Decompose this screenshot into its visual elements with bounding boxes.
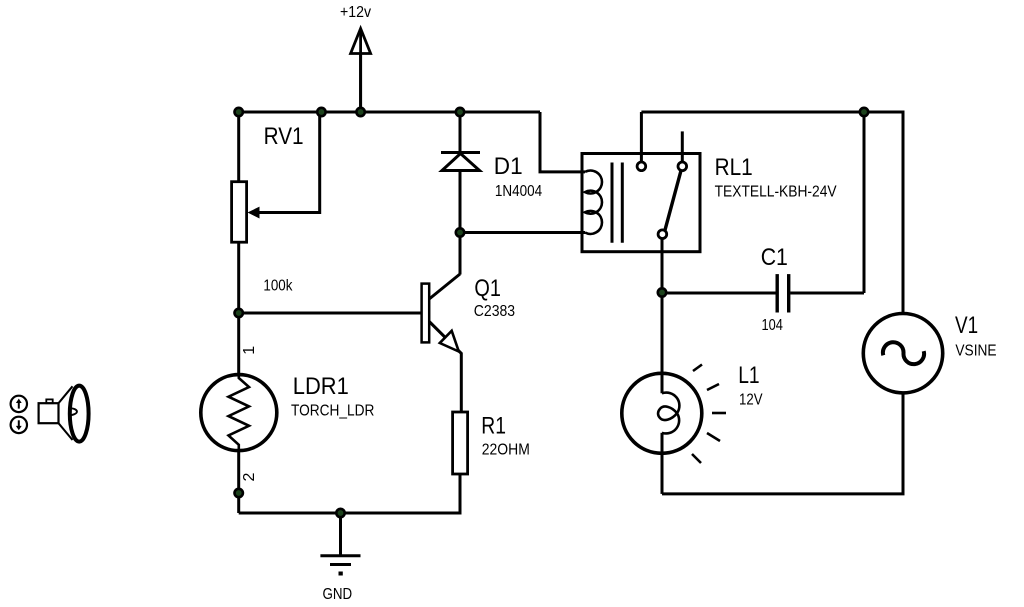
wire: relay NO stub (681, 131, 684, 162)
junction: D1 bottom node (456, 228, 464, 236)
svg-text:D1: D1 (494, 153, 523, 180)
resistor R1 body (453, 412, 468, 474)
relay RL1 (582, 154, 700, 252)
junction: C1 riser top (860, 108, 868, 116)
wire: drop to relay coil top (540, 112, 585, 172)
junction: lamp top node (658, 288, 666, 296)
svg-text:V1: V1 (955, 312, 978, 339)
wire: Q1 base wire (239, 312, 422, 315)
svg-text:R1: R1 (481, 413, 506, 440)
svg-text:RL1: RL1 (715, 154, 753, 181)
L1 filament (658, 393, 679, 434)
RL1 box (582, 154, 700, 252)
capacitor C1 (777, 274, 789, 312)
source V1 (863, 314, 942, 393)
speaker down button (11, 417, 27, 433)
svg-text:C2383: C2383 (474, 303, 515, 320)
wire: top rail left (239, 111, 540, 114)
wire: C1 left wire (662, 292, 776, 295)
potentiometer RV1 wiper arrowhead (248, 207, 260, 219)
RL1 switch blade (665, 171, 681, 230)
wire: RV1 wiper (256, 112, 320, 213)
wire: relay pin riser (640, 112, 643, 163)
svg-text:VSINE: VSINE (955, 342, 996, 359)
svg-text:L1: L1 (738, 362, 759, 389)
potentiometer RV1 body (232, 182, 247, 243)
wire: Q1 collector riser (459, 233, 462, 275)
wire: lamp bottom pin (661, 433, 664, 494)
wire: RV1 bottom pin (237, 242, 240, 313)
power symbol +12v arrow (351, 29, 371, 113)
svg-text:104: 104 (762, 317, 783, 334)
Q1 base bar (422, 284, 430, 343)
junction: ground node (336, 509, 344, 517)
wire: LDR1 bottom pin (237, 451, 240, 513)
svg-text:LDR1: LDR1 (293, 373, 349, 400)
speaker driver box (39, 403, 59, 423)
L1 rays (692, 365, 726, 464)
speaker up button (11, 396, 27, 412)
RL1 pin circle common (658, 230, 667, 239)
svg-text:RV1: RV1 (264, 123, 304, 150)
Q1 emitter diagonal (429, 322, 461, 413)
wire: top rail right (641, 112, 903, 314)
RL1 pin circle right (678, 162, 687, 171)
wire: ground drop (339, 513, 342, 556)
svg-text:100k: 100k (263, 277, 293, 294)
svg-text:2: 2 (241, 472, 258, 481)
speaker horn mouth (70, 386, 89, 442)
svg-text:1: 1 (241, 346, 258, 355)
junction: RV1 top (235, 108, 243, 116)
speaker horn lines (59, 386, 73, 403)
svg-text:TEXTELL-KBH-24V: TEXTELL-KBH-24V (715, 184, 837, 201)
lamp L1 (622, 365, 726, 464)
wire: RV1 top pin (237, 112, 240, 182)
junction: wiper top (317, 108, 325, 116)
wire: bottom rail left (239, 474, 460, 513)
wire: C1 riser (863, 112, 866, 293)
junction: power (356, 108, 364, 116)
speaker hook detail (69, 408, 77, 415)
wire: node to lamp top (661, 293, 664, 394)
transistor Q1 (422, 274, 462, 412)
wire: LDR1 top pin (237, 313, 240, 375)
wire: bottom rail right (662, 393, 903, 494)
junction: LDR pin 2 (235, 489, 243, 497)
wire: D1 top pin (459, 112, 462, 153)
svg-text:TORCH_LDR: TORCH_LDR (291, 403, 374, 420)
junction: Q1 base node (235, 309, 243, 317)
Q1 emitter arrowhead (440, 331, 459, 352)
LDR1 symbol (201, 375, 277, 451)
RL1 coil (585, 170, 602, 233)
wire: relay coil bottom (460, 231, 585, 234)
svg-text:+12v: +12v (340, 4, 371, 21)
svg-text:12V: 12V (739, 392, 763, 409)
svg-text:22OHM: 22OHM (482, 441, 530, 458)
speaker annotation icon (11, 386, 89, 442)
RL1 pin circle left (637, 162, 646, 171)
wire: relay common drop (661, 238, 664, 292)
svg-text:1N4004: 1N4004 (495, 183, 542, 200)
svg-text:C1: C1 (761, 244, 788, 271)
diode D1 (441, 153, 480, 171)
junction: D1 top (456, 108, 464, 116)
V1 sine (883, 342, 924, 364)
RL1 core lines (611, 163, 614, 243)
wire: C1 right wire (790, 292, 864, 295)
wire: power pin (359, 54, 362, 113)
ground symbol (320, 556, 360, 574)
svg-text:Q1: Q1 (474, 275, 501, 302)
wire: D1 bottom pin (459, 171, 462, 233)
Q1 collector diagonal (429, 274, 460, 299)
svg-text:GND: GND (323, 586, 353, 603)
